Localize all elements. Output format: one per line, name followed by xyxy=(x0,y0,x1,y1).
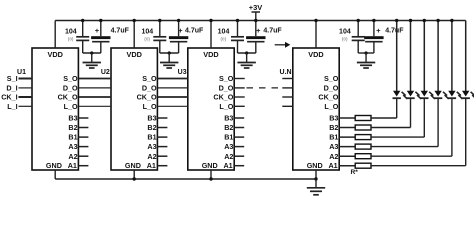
capacitor C1b 4.7uF electrolytic xyxy=(100,21,102,37)
node capacitor group 3 junction xyxy=(245,51,248,54)
wire B1 stub at U1 xyxy=(78,136,88,138)
svg-text:R*: R* xyxy=(351,169,359,176)
wire resistor R5 to LED D5 xyxy=(371,155,452,157)
wire rail to LED D1 anode xyxy=(396,21,398,92)
node rail junction C1a xyxy=(81,19,84,22)
svg-text:VDD: VDD xyxy=(47,50,62,59)
wire VDD pin of U1 to rail xyxy=(54,21,56,49)
LED D1 xyxy=(393,91,400,97)
svg-text:GND: GND xyxy=(46,161,62,170)
svg-text:CK_O: CK_O xyxy=(137,93,157,102)
wire U.N pin B1 to resistor R3 xyxy=(339,136,355,138)
wire dashed continuation (omitted stages) xyxy=(247,87,281,89)
wire L chain U1 to U2 xyxy=(78,105,111,107)
node rail junction C1b xyxy=(99,19,102,22)
node rail junction LED D2 xyxy=(409,19,412,22)
svg-text:CK_O: CK_O xyxy=(213,93,233,102)
svg-text:VDD: VDD xyxy=(308,50,323,59)
svg-text:B3: B3 xyxy=(147,114,156,123)
svg-text:B3: B3 xyxy=(68,114,77,123)
wire GND pin of U.N to ground rail xyxy=(315,170,317,179)
svg-text:D_O: D_O xyxy=(219,84,234,93)
svg-text:104: 104 xyxy=(65,29,77,36)
svg-text:B2: B2 xyxy=(224,123,233,132)
node rail junction C3a xyxy=(236,19,239,22)
svg-text:(0): (0) xyxy=(221,36,227,41)
svg-text:S_O: S_O xyxy=(142,74,157,83)
wire A1 stub at U3 xyxy=(234,165,244,167)
IC U.N body xyxy=(293,48,339,170)
wire L stub at U3 output xyxy=(234,105,245,107)
wire D chain U2 to U3 xyxy=(157,87,187,89)
node rail junction VDD U.N xyxy=(314,19,317,22)
svg-text:B1: B1 xyxy=(147,133,156,142)
svg-text:B1: B1 xyxy=(329,133,338,142)
wire GND pin of U1 to ground rail xyxy=(54,170,56,179)
wire rail to LED D2 anode xyxy=(410,21,412,92)
wire A3 stub at U3 xyxy=(234,146,244,148)
svg-text:VDD: VDD xyxy=(126,50,141,59)
svg-text:A2: A2 xyxy=(224,152,233,161)
node rail junction LED D3 xyxy=(423,19,426,22)
svg-text:D_I: D_I xyxy=(6,84,17,93)
wire B3 stub at U1 xyxy=(78,117,88,119)
wire input D_I stub xyxy=(19,87,33,89)
wire resistor R3 to LED D3 xyxy=(371,136,424,138)
svg-text:GND: GND xyxy=(202,161,218,170)
wire U.N pin B3 to resistor R1 xyxy=(339,117,355,119)
wire rail to LED D3 anode xyxy=(423,21,425,92)
svg-text:S_O: S_O xyxy=(219,74,234,83)
wire B3 stub at U3 xyxy=(234,117,244,119)
svg-text:B1: B1 xyxy=(224,133,233,142)
svg-text:L_O: L_O xyxy=(64,102,78,111)
wire input S_I stub xyxy=(19,78,33,80)
resistor R6 xyxy=(355,163,371,168)
capacitor C1a 104 ceramic xyxy=(82,21,84,37)
wire rail to LED D6 anode xyxy=(465,21,467,92)
svg-text:+: + xyxy=(95,26,100,35)
svg-text:B2: B2 xyxy=(147,123,156,132)
node rail junction VDD U2 xyxy=(133,19,136,22)
node rail junction C2b xyxy=(177,19,180,22)
wire B3 stub at U2 xyxy=(157,117,167,119)
IC U2 body xyxy=(111,48,157,170)
svg-text:U1: U1 xyxy=(17,69,26,76)
svg-text:(0): (0) xyxy=(342,36,348,41)
wire resistor R1 to LED D1 xyxy=(371,117,397,119)
node rail junction LED D1 xyxy=(395,19,398,22)
capacitor C3a 104 ceramic xyxy=(237,21,239,37)
svg-text:4.7uF: 4.7uF xyxy=(185,28,204,35)
svg-text:A1: A1 xyxy=(68,161,77,170)
wire A2 stub at U1 xyxy=(78,155,88,157)
svg-text:S_I: S_I xyxy=(7,74,18,83)
svg-text:D_O: D_O xyxy=(63,84,78,93)
wire resistor R4 to LED D4 xyxy=(371,146,438,148)
svg-text:4.7uF: 4.7uF xyxy=(385,28,404,35)
IC U1 body xyxy=(32,48,78,170)
svg-text:D_O: D_O xyxy=(324,84,339,93)
svg-text:GND: GND xyxy=(307,161,323,170)
wire rail to LED D5 anode xyxy=(451,21,453,92)
svg-text:A3: A3 xyxy=(224,142,233,151)
wire capacitor group 4 common node xyxy=(358,52,374,54)
svg-text:B1: B1 xyxy=(68,133,77,142)
wire L stub at U.N input xyxy=(282,105,293,107)
resistor R2 xyxy=(355,125,371,130)
wire D stub at U3 output xyxy=(234,87,245,89)
svg-text:A3: A3 xyxy=(68,142,77,151)
svg-text:+: + xyxy=(376,26,381,35)
svg-text:104: 104 xyxy=(218,29,230,36)
svg-text:L_O: L_O xyxy=(324,102,338,111)
LED D5 xyxy=(448,91,455,97)
capacitor C4a 104 ceramic xyxy=(357,21,359,37)
wire A1 stub at U1 xyxy=(78,165,88,167)
node capacitor group 1 junction xyxy=(90,51,93,54)
svg-text:U2: U2 xyxy=(101,69,110,76)
svg-text:104: 104 xyxy=(339,29,351,36)
node ground rail junction U3 xyxy=(209,177,212,180)
wire B2 stub at U1 xyxy=(78,127,88,129)
LED D2 xyxy=(407,91,414,97)
svg-text:L_I: L_I xyxy=(7,102,17,111)
svg-text:B2: B2 xyxy=(68,123,77,132)
wire +3V power rail (top) xyxy=(55,20,466,22)
capacitor C2b 4.7uF electrolytic xyxy=(178,21,180,37)
svg-text:A3: A3 xyxy=(329,142,338,151)
ground symbol (cap group 4) xyxy=(365,53,367,62)
svg-text:A1: A1 xyxy=(223,161,232,170)
wire capacitor group 2 common node xyxy=(160,52,179,54)
LED D4 xyxy=(434,91,441,97)
svg-text:GND: GND xyxy=(125,161,141,170)
svg-text:L_O: L_O xyxy=(143,102,157,111)
wire input CK_I stub xyxy=(19,96,33,98)
svg-text:A2: A2 xyxy=(147,152,156,161)
svg-text:U3: U3 xyxy=(178,69,187,76)
wire VDD pin of U2 to rail xyxy=(133,21,135,49)
wire B2 stub at U2 xyxy=(157,127,167,129)
svg-text:S_O: S_O xyxy=(324,74,339,83)
capacitor C4b 4.7uF electrolytic xyxy=(373,21,375,37)
wire VDD pin of U.N to rail xyxy=(315,21,317,49)
wire B1 stub at U3 xyxy=(234,136,244,138)
svg-text:(0): (0) xyxy=(144,36,150,41)
wire L chain U2 to U3 xyxy=(157,105,187,107)
node rail junction C4b xyxy=(372,19,375,22)
capacitor C3b 4.7uF electrolytic xyxy=(255,21,257,37)
wire D chain U1 to U2 xyxy=(78,87,111,89)
node rail junction VDD U3 xyxy=(209,19,212,22)
wire capacitor group 3 common node xyxy=(238,52,256,54)
wire D stub at U.N input xyxy=(282,87,293,89)
wire CK stub at U.N input xyxy=(282,96,293,98)
resistor R4 xyxy=(355,144,371,149)
wire GND pin of U3 to ground rail xyxy=(210,170,212,179)
node rail junction LED D4 xyxy=(436,19,439,22)
IC U3 body xyxy=(188,48,234,170)
ground symbol (main) xyxy=(315,179,317,188)
LED D3 xyxy=(421,91,428,97)
wire A1 stub at U2 xyxy=(157,165,167,167)
wire A3 stub at U2 xyxy=(157,146,167,148)
wire rail to LED D4 anode xyxy=(437,21,439,92)
wire S stub at U3 output xyxy=(234,78,245,80)
svg-text:CK_O: CK_O xyxy=(58,93,78,102)
wire U.N pin B2 to resistor R2 xyxy=(339,127,355,129)
svg-text:A2: A2 xyxy=(68,152,77,161)
wire S chain U2 to U3 xyxy=(157,78,187,80)
node rail junction C3b xyxy=(254,19,257,22)
svg-text:D_O: D_O xyxy=(142,84,157,93)
resistor R5 xyxy=(355,154,371,159)
node capacitor group 2 junction xyxy=(168,51,171,54)
svg-text:VDD: VDD xyxy=(203,50,218,59)
node rail junction C2a xyxy=(158,19,161,22)
wire A3 stub at U1 xyxy=(78,146,88,148)
capacitor C2a 104 ceramic xyxy=(159,21,161,37)
svg-text:+3V: +3V xyxy=(249,3,263,12)
svg-text:4.7uF: 4.7uF xyxy=(263,28,282,35)
node ground rail junction U2 xyxy=(133,177,136,180)
svg-text:L_O: L_O xyxy=(219,102,233,111)
wire resistor R2 to LED D2 xyxy=(371,127,411,129)
resistor R1 xyxy=(355,116,371,121)
svg-text:A2: A2 xyxy=(329,152,338,161)
wire GND pin of U2 to ground rail xyxy=(133,170,135,179)
svg-text:104: 104 xyxy=(141,29,153,36)
node rail junction LED D5 xyxy=(450,19,453,22)
wire A2 stub at U3 xyxy=(234,155,244,157)
svg-text:CK_O: CK_O xyxy=(318,93,338,102)
continuation arrow xyxy=(275,44,286,46)
node capacitor group 4 junction xyxy=(364,51,367,54)
svg-text:B3: B3 xyxy=(329,114,338,123)
wire U.N pin A1 to resistor R6 xyxy=(339,165,355,167)
svg-text:A3: A3 xyxy=(147,142,156,151)
wire VDD pin of U3 to rail xyxy=(210,21,212,49)
wire S stub at U.N input xyxy=(282,78,293,80)
node rail junction C4a xyxy=(357,19,360,22)
svg-text:CK_I: CK_I xyxy=(1,93,17,102)
ground symbol (cap group 1) xyxy=(91,53,93,62)
wire S chain U1 to U2 xyxy=(78,78,111,80)
svg-text:A1: A1 xyxy=(147,161,156,170)
svg-text:A1: A1 xyxy=(328,161,337,170)
wire CK chain U1 to U2 xyxy=(78,96,111,98)
wire U.N pin A3 to resistor R4 xyxy=(339,146,355,148)
svg-text:(0): (0) xyxy=(68,36,74,41)
svg-text:B2: B2 xyxy=(329,123,338,132)
svg-text:U.N: U.N xyxy=(280,69,292,76)
resistor R3 xyxy=(355,135,371,140)
svg-text:S_O: S_O xyxy=(63,74,78,83)
LED D6 xyxy=(462,91,469,97)
wire input L_I stub xyxy=(19,105,33,107)
wire U.N pin A2 to resistor R5 xyxy=(339,155,355,157)
wire ground rail (bottom) xyxy=(55,178,316,180)
wire CK stub at U3 output xyxy=(234,96,245,98)
ground symbol (cap group 2) xyxy=(168,53,170,62)
svg-text:4.7uF: 4.7uF xyxy=(111,28,130,35)
wire B1 stub at U2 xyxy=(157,136,167,138)
ground symbol (cap group 3) xyxy=(246,53,248,62)
wire A2 stub at U2 xyxy=(157,155,167,157)
svg-text:B3: B3 xyxy=(224,114,233,123)
wire B2 stub at U3 xyxy=(234,127,244,129)
wire resistor R6 to LED D6 xyxy=(371,165,466,167)
wire CK chain U2 to U3 xyxy=(157,96,187,98)
wire capacitor group 1 common node xyxy=(83,52,101,54)
svg-text:+: + xyxy=(256,26,261,35)
node ground rail junction U.N xyxy=(314,177,317,180)
